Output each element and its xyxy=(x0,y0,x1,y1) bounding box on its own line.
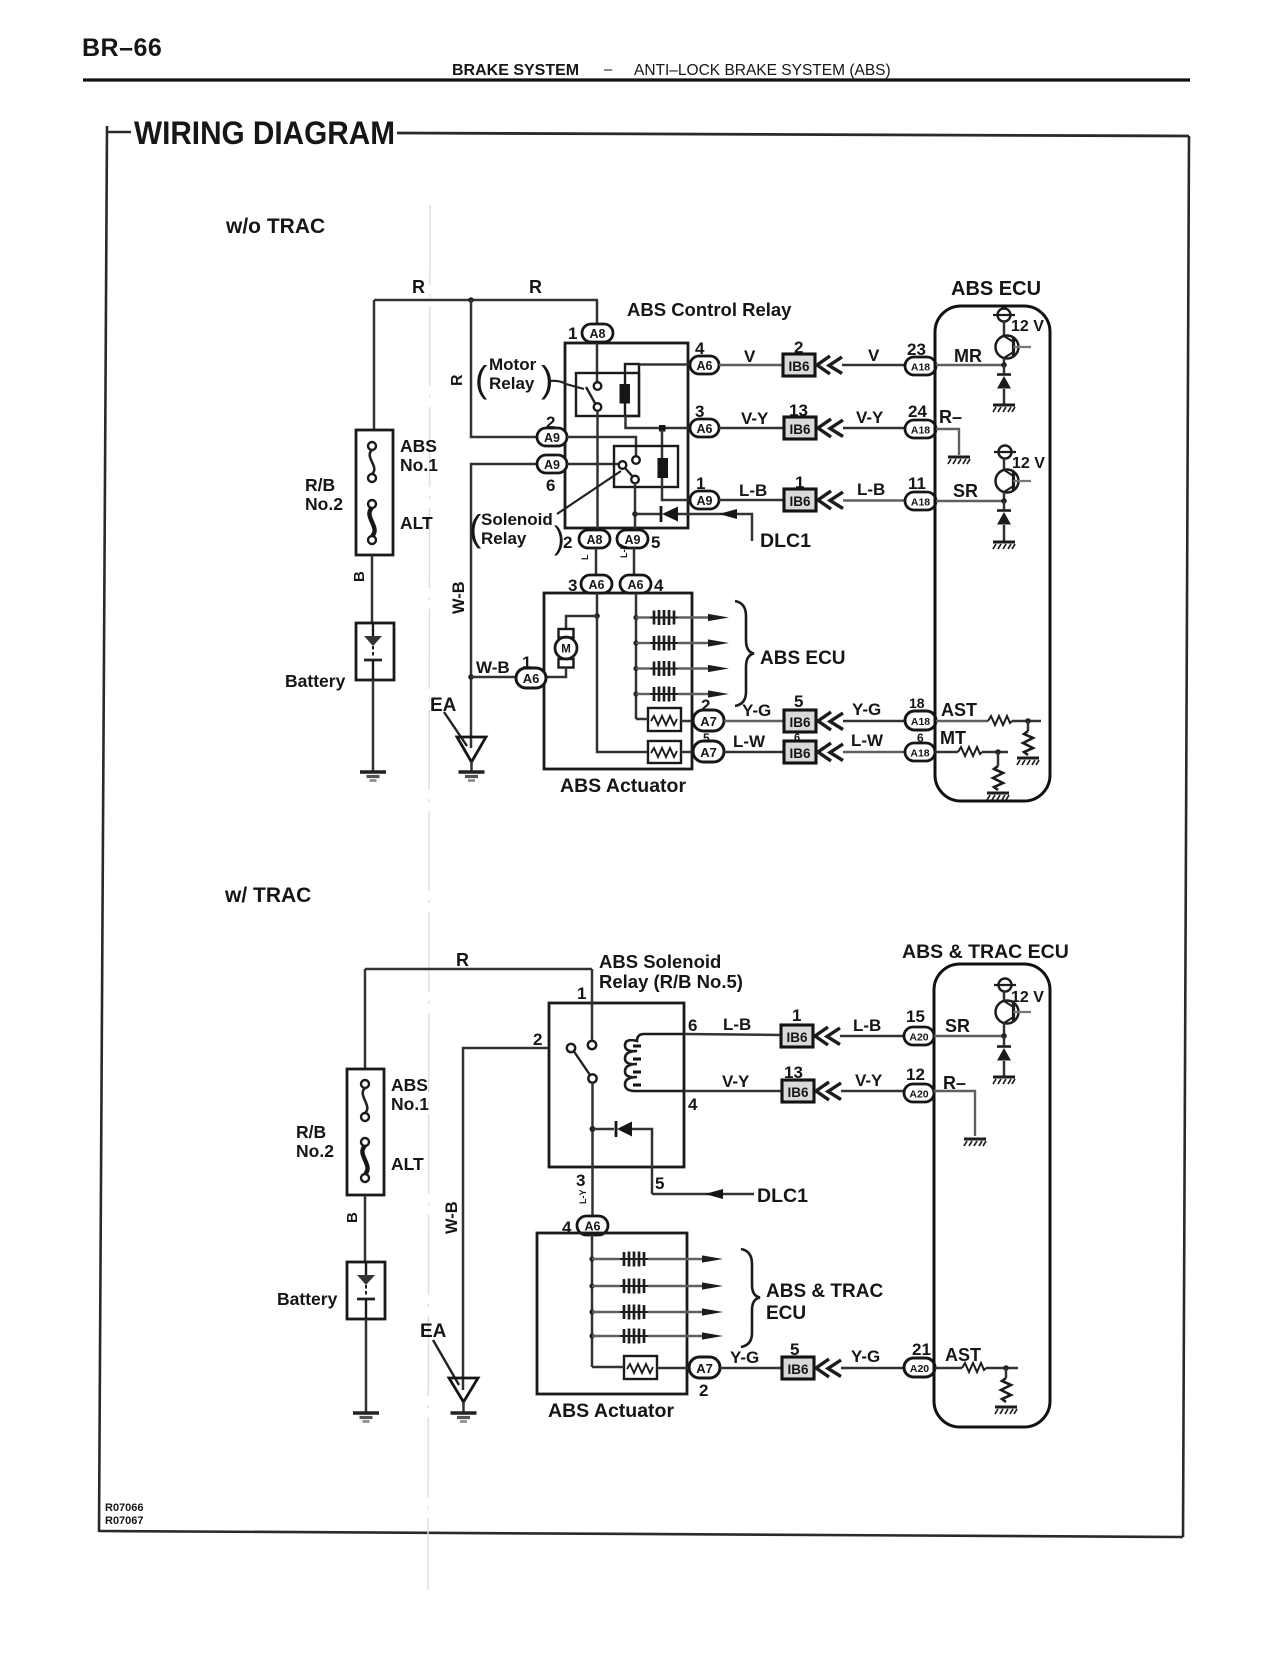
wire R/B No.2 to battery (lower) xyxy=(364,1195,367,1262)
svg-text:IB6: IB6 xyxy=(789,422,811,437)
wire Y-G to IB6 (lower) xyxy=(720,1367,782,1370)
svg-text:ABS Solenoid: ABS Solenoid xyxy=(599,951,721,972)
actuator solenoid coil 3 xyxy=(633,666,638,671)
svg-text:A6: A6 xyxy=(697,359,713,373)
svg-text:1: 1 xyxy=(568,324,577,343)
svg-text:R: R xyxy=(449,374,466,386)
wire to diode xyxy=(635,513,660,516)
svg-text:Y-G: Y-G xyxy=(730,1348,759,1367)
wire 12V to transistor (lower) xyxy=(1003,991,1006,1002)
svg-text:12: 12 xyxy=(906,1065,925,1084)
chevron arrows V row xyxy=(817,356,842,374)
svg-text:): ) xyxy=(541,359,553,400)
wire SR row xyxy=(936,500,1004,502)
connector A7 oval (lower) xyxy=(689,1357,720,1378)
connector A9 pin5 oval xyxy=(617,530,648,548)
junction on R wire xyxy=(468,297,474,303)
svg-text:Relay (R/B No.5): Relay (R/B No.5) xyxy=(599,971,743,992)
svg-text:ABS ECU: ABS ECU xyxy=(760,648,846,669)
svg-text:4: 4 xyxy=(654,576,664,595)
wire to diode (lower) xyxy=(593,1128,615,1131)
wire resistor to A7 (lower) xyxy=(657,1367,690,1370)
svg-text:A18: A18 xyxy=(911,497,930,509)
svg-text:L-B: L-B xyxy=(723,1015,751,1034)
junction V-Y row to solenoid coil xyxy=(659,425,666,432)
svg-text:ECU: ECU xyxy=(766,1303,806,1324)
svg-text:ABS ECU: ABS ECU xyxy=(951,278,1041,300)
wire transistor to SR row (lower) xyxy=(1003,1023,1006,1036)
svg-text:1: 1 xyxy=(792,1006,801,1025)
svg-text:R/B: R/B xyxy=(296,1122,326,1142)
relay/block box R/B No.2 xyxy=(356,430,393,555)
svg-text:No.2: No.2 xyxy=(296,1141,334,1161)
wire L-W to ECU pin 6 xyxy=(843,751,906,753)
switch blade xyxy=(574,1052,590,1076)
svg-text:3: 3 xyxy=(576,1171,585,1190)
svg-text:A9: A9 xyxy=(544,458,560,472)
resistor AST vertical to ground xyxy=(1027,721,1030,731)
switch left contact xyxy=(567,1044,575,1052)
svg-text:2: 2 xyxy=(563,533,572,552)
svg-text:18: 18 xyxy=(909,695,925,711)
diode (lower) xyxy=(616,1121,632,1137)
solenoid coil bus (lower) xyxy=(591,1235,594,1367)
wire W-B branch to A6 pin1 xyxy=(471,676,517,679)
relay/block box R/B No.2 (lower) xyxy=(347,1069,384,1195)
svg-text:IB6: IB6 xyxy=(787,1085,809,1100)
ground MR xyxy=(993,405,1015,412)
svg-text:A18: A18 xyxy=(911,425,930,437)
chevron arrows V-Y (lower) xyxy=(816,1082,841,1100)
resistor AST xyxy=(988,716,1012,725)
svg-text:W-B: W-B xyxy=(443,1201,461,1234)
earth ground EA triangle (lower) xyxy=(449,1378,478,1402)
wire junction down to L-W row xyxy=(597,616,648,752)
svg-text:SR: SR xyxy=(953,481,978,501)
svg-text:IB6: IB6 xyxy=(787,1362,809,1377)
wire junction to motor top xyxy=(566,616,597,630)
svg-text:R07067: R07067 xyxy=(105,1515,144,1527)
svg-text:V-Y: V-Y xyxy=(855,1071,883,1090)
svg-text:M: M xyxy=(561,644,571,656)
svg-text:A8: A8 xyxy=(587,533,603,547)
pointer from label to solenoid blade xyxy=(557,471,621,514)
svg-text:A20: A20 xyxy=(909,1032,928,1044)
junction motor feed xyxy=(594,613,600,619)
svg-text:MR: MR xyxy=(954,346,982,366)
svg-text:11: 11 xyxy=(908,474,926,493)
solenoid relay blade xyxy=(625,468,633,477)
wire V-Y to ECU pin 24 xyxy=(843,427,906,430)
wire R top horizontal (lower) xyxy=(365,968,592,971)
junction MR xyxy=(1001,362,1007,368)
wire A9 pin6 to solenoid relay contact xyxy=(567,463,619,466)
junction connector IB6 (V row) xyxy=(783,354,815,376)
svg-text:Battery: Battery xyxy=(285,671,346,691)
connector A18 oval (pin 23) xyxy=(905,357,936,375)
brace to ABS ECU xyxy=(735,601,754,706)
wire resistor 1 to A7 xyxy=(681,720,694,723)
svg-text:ANTI–LOCK BRAKE SYSTEM (ABS): ANTI–LOCK BRAKE SYSTEM (ABS) xyxy=(634,62,891,79)
svg-text:Solenoid: Solenoid xyxy=(481,510,553,529)
ground R- (lower) xyxy=(964,1139,986,1146)
brace to ABS & TRAC ECU xyxy=(741,1249,760,1347)
resistor box 1 (Y-G row) xyxy=(648,708,681,731)
wire Y-G to IB6 xyxy=(724,720,784,722)
svg-text:w/o TRAC: w/o TRAC xyxy=(225,215,325,238)
svg-text:IB6: IB6 xyxy=(786,1030,808,1045)
svg-text:AST: AST xyxy=(941,700,977,720)
actuator solenoid coil 1 (lower) xyxy=(589,1256,594,1261)
junction connector IB6 (L-W row) xyxy=(784,741,816,763)
svg-text:A20: A20 xyxy=(910,1363,929,1375)
motor M xyxy=(555,629,577,668)
svg-text:A7: A7 xyxy=(700,714,717,729)
svg-text:BRAKE SYSTEM: BRAKE SYSTEM xyxy=(452,62,579,79)
ABS Actuator box (lower) xyxy=(537,1233,687,1394)
connector A9 pin6 oval xyxy=(537,455,567,473)
junction connector IB6 (lower L-B) xyxy=(781,1025,813,1047)
ground AST (lower) xyxy=(995,1407,1017,1414)
coil tick marks xyxy=(633,1045,641,1048)
wire SR row (lower) xyxy=(934,1035,1004,1037)
battery symbol xyxy=(364,623,382,680)
ABS Solenoid Relay box xyxy=(549,1003,684,1167)
svg-text:R/B: R/B xyxy=(305,475,335,495)
connector A7 oval (L-W) xyxy=(693,741,724,762)
ground bars EA xyxy=(459,772,485,781)
svg-text:A6: A6 xyxy=(697,422,713,436)
connector A18 oval (pin 11) xyxy=(905,492,936,510)
connector A6 pin4 oval xyxy=(690,356,719,374)
chevron arrows L-B row xyxy=(818,491,843,509)
junction diode tap xyxy=(632,511,638,517)
fuse ABS No.1 (lower) xyxy=(361,1080,369,1121)
connector A20 oval (pin 15) xyxy=(904,1027,934,1045)
12V terminal 2 xyxy=(994,446,1016,459)
fuse ABS No.1 xyxy=(368,442,376,482)
svg-text:R: R xyxy=(529,277,542,297)
wire bus to resistor 1 xyxy=(636,718,648,721)
svg-text:BR–66: BR–66 xyxy=(82,34,162,62)
outer frame top border xyxy=(397,133,1189,136)
svg-text:A20: A20 xyxy=(909,1089,928,1101)
motor relay fixed contact xyxy=(594,382,602,390)
motor relay moving contact xyxy=(594,403,602,411)
wire R branch down to relay coil pin 2 xyxy=(471,300,537,437)
svg-text:A7: A7 xyxy=(696,1361,713,1376)
outer frame left border xyxy=(99,126,107,1532)
connector A8 pin1 oval xyxy=(582,324,613,342)
svg-text:ABS Control Relay: ABS Control Relay xyxy=(627,299,792,320)
wire pin1 into switch xyxy=(591,969,594,1041)
pointer from label to motor relay blade xyxy=(549,381,584,389)
arrowhead on DLC1 wire xyxy=(719,509,737,519)
connector A20 oval (pin 21) xyxy=(904,1358,935,1377)
wire V-Y to IB6 (lower) xyxy=(684,1090,783,1093)
junction SR xyxy=(1001,498,1007,504)
DLC1 wire with arrowhead (lower) xyxy=(652,1193,754,1196)
svg-text:24: 24 xyxy=(908,402,927,421)
svg-text:A6: A6 xyxy=(585,1220,601,1234)
solenoid relay box xyxy=(614,446,678,487)
battery box xyxy=(356,623,394,680)
wire AST row inside ECU (lower) xyxy=(935,1367,962,1370)
wire 12V to transistor SR xyxy=(1003,458,1006,471)
svg-text:A6: A6 xyxy=(523,671,540,686)
ground under battery (lower) xyxy=(353,1413,379,1422)
wire MR row xyxy=(936,364,1004,366)
resistor MT xyxy=(958,747,982,756)
svg-text:Motor: Motor xyxy=(489,355,537,374)
transistor MR xyxy=(996,336,1032,359)
chevron arrows L-W row xyxy=(818,743,843,761)
svg-text:B: B xyxy=(344,1212,361,1223)
EA pointer line xyxy=(444,712,467,746)
wire L-B to IB6 xyxy=(719,499,784,502)
wire L-B to IB6 (lower) xyxy=(684,1034,782,1035)
junction AST xyxy=(1025,718,1031,724)
wire W-B from relay pin2 down to EA (lower) xyxy=(463,1048,548,1390)
ABS ECU box xyxy=(935,306,1050,801)
battery box (lower) xyxy=(347,1262,385,1319)
connector A18 oval (pin 18) xyxy=(905,711,936,730)
battery symbol (lower) xyxy=(357,1262,375,1319)
connector A6 pin3 oval xyxy=(690,419,719,437)
svg-text:ALT: ALT xyxy=(391,1154,424,1174)
svg-text:ALT: ALT xyxy=(400,513,433,533)
svg-text:ABS & TRAC: ABS & TRAC xyxy=(766,1281,883,1302)
svg-text:w/ TRAC: w/ TRAC xyxy=(224,884,311,907)
connector A6 pin1 oval xyxy=(516,668,546,688)
wire V-Y to IB6 xyxy=(719,427,784,430)
svg-text:A8: A8 xyxy=(590,327,606,341)
svg-text:12 V: 12 V xyxy=(1012,455,1045,472)
svg-text:A6: A6 xyxy=(589,578,605,592)
solenoid relay moving contact xyxy=(631,476,639,484)
svg-text:4: 4 xyxy=(688,1095,698,1114)
resistor MT vertical to ground xyxy=(997,752,1000,766)
motor relay coil (solid) xyxy=(620,384,631,404)
ABS & TRAC ECU box xyxy=(934,964,1050,1427)
connector A7 oval (Y-G) xyxy=(693,710,724,731)
wire down to R/B No.2 xyxy=(373,300,376,430)
resistor AST vertical to ground (lower) xyxy=(1005,1368,1008,1378)
chevron arrows Y-G (lower) xyxy=(816,1359,841,1377)
svg-text:L-W: L-W xyxy=(851,731,884,750)
svg-text:A6: A6 xyxy=(628,578,644,592)
svg-text:(: ( xyxy=(475,359,488,400)
motor relay blade xyxy=(586,387,596,404)
junction connector IB6 (lower V-Y) xyxy=(782,1080,814,1102)
svg-text:No.2: No.2 xyxy=(305,494,343,514)
solenoid coil bus from A6 pin4 xyxy=(635,593,638,719)
svg-text:A18: A18 xyxy=(911,362,930,374)
svg-text:R–: R– xyxy=(939,407,962,427)
junction W-B to actuator motor xyxy=(468,674,474,680)
outer frame bottom border xyxy=(99,1531,1183,1537)
svg-text:ABS: ABS xyxy=(391,1075,428,1095)
ground R- xyxy=(948,457,970,464)
diode MR to ground xyxy=(1003,365,1006,374)
svg-text:R: R xyxy=(456,950,469,970)
svg-text:V-Y: V-Y xyxy=(741,409,769,428)
svg-text:AST: AST xyxy=(945,1345,981,1365)
svg-text:L-Y: L-Y xyxy=(619,544,629,559)
svg-text:SR: SR xyxy=(945,1016,970,1036)
ground under battery xyxy=(360,772,386,781)
connector A9 pin1 oval xyxy=(690,491,719,509)
solenoid relay upper contact xyxy=(632,456,640,464)
wire V to junction IB6 xyxy=(719,364,784,366)
12V terminal (lower) xyxy=(994,979,1016,992)
connector A18 oval (pin 24) xyxy=(905,420,936,438)
svg-text:ABS Actuator: ABS Actuator xyxy=(548,1400,674,1422)
svg-text:Y-G: Y-G xyxy=(852,700,881,719)
wire R top horizontal xyxy=(374,299,598,302)
svg-text:A18: A18 xyxy=(910,748,929,760)
svg-text:1: 1 xyxy=(577,984,586,1003)
wire Y-G to ECU pin 21 (lower) xyxy=(841,1367,905,1370)
wire AST row inside ECU xyxy=(936,720,988,722)
svg-text:IB6: IB6 xyxy=(788,359,810,374)
wire solenoid coil to A9 pin1 (L-B row) xyxy=(662,478,690,500)
svg-text:V-Y: V-Y xyxy=(722,1072,750,1091)
svg-text:No.1: No.1 xyxy=(391,1094,429,1114)
wire solenoid switch to A9 pin5 xyxy=(634,483,637,530)
svg-text:No.1: No.1 xyxy=(400,455,438,475)
ABS Actuator box xyxy=(544,593,692,769)
actuator solenoid coil 2 xyxy=(633,640,638,645)
svg-text:Relay: Relay xyxy=(481,529,527,548)
svg-text:3: 3 xyxy=(568,576,577,595)
outer frame top stub left of title xyxy=(106,131,131,134)
svg-text:R07066: R07066 xyxy=(105,1502,144,1514)
wire A9 pin2 to solenoid relay fixed contact xyxy=(567,437,636,456)
junction connector IB6 (Y-G row) xyxy=(784,710,816,732)
wire motor bottom to A6 pin1 xyxy=(546,668,566,678)
svg-text:5: 5 xyxy=(655,1174,664,1193)
connector A20 oval (pin 12) xyxy=(904,1084,934,1102)
fusible link ALT (lower) xyxy=(361,1138,369,1182)
svg-text:Y-G: Y-G xyxy=(851,1347,880,1366)
svg-text:6: 6 xyxy=(546,476,555,495)
switch fixed contact (lower relay) xyxy=(588,1041,596,1049)
header horizontal rule xyxy=(83,78,1190,81)
svg-text:L: L xyxy=(580,554,590,560)
svg-text:15: 15 xyxy=(906,1007,925,1026)
connector A6 pin4 oval (actuator) xyxy=(620,575,651,593)
wire resistor 2 to A7 xyxy=(681,751,694,754)
svg-text:IB6: IB6 xyxy=(789,746,811,761)
wire L-B to ECU pin 11 xyxy=(843,499,906,501)
junction connector IB6 (L-B row) xyxy=(784,489,816,511)
svg-text:5: 5 xyxy=(794,692,803,711)
svg-text:–: – xyxy=(604,61,613,78)
svg-text:ABS & TRAC ECU: ABS & TRAC ECU xyxy=(902,941,1069,963)
wire bus to resistor (lower) xyxy=(592,1366,624,1369)
chevron arrows V-Y row xyxy=(818,419,843,437)
svg-text:Y-G: Y-G xyxy=(742,701,771,720)
faint scanner streak vertical line xyxy=(428,205,430,1590)
solenoid relay coil (solid) xyxy=(658,458,669,478)
svg-text:Battery: Battery xyxy=(277,1289,338,1309)
solenoid relay left contact xyxy=(619,461,627,469)
junction diode tap (lower) xyxy=(590,1126,596,1132)
pin 24 wire R- to ground xyxy=(936,429,959,455)
wire 12V to transistor xyxy=(1003,321,1006,337)
wire A6 pin3 to motor junction xyxy=(596,593,599,616)
svg-text:L-W: L-W xyxy=(733,732,766,751)
wire coil to A6 pin4 (V row) xyxy=(639,363,690,366)
wire transistor to SR row xyxy=(1003,492,1006,501)
svg-text:L-Y: L-Y xyxy=(578,1190,588,1205)
svg-text:W-B: W-B xyxy=(476,658,510,677)
svg-text:MT: MT xyxy=(940,728,966,748)
svg-text:DLC1: DLC1 xyxy=(757,1185,808,1207)
wire motor relay switch to A8 pin2 xyxy=(596,411,599,530)
svg-text:2: 2 xyxy=(533,1030,542,1049)
wire V to ECU pin 23 xyxy=(842,364,906,367)
EA pointer line (lower) xyxy=(433,1340,459,1385)
diode SR to ground (lower) xyxy=(1003,1036,1006,1046)
diode SR to ground xyxy=(1003,501,1006,510)
12V terminal 1 xyxy=(993,309,1015,322)
chevron arrows L-B (lower) xyxy=(815,1027,840,1045)
wire transistor to MR row xyxy=(1003,358,1006,365)
junction MT xyxy=(995,749,1001,755)
svg-text:IB6: IB6 xyxy=(789,715,811,730)
svg-text:A9: A9 xyxy=(544,431,560,445)
motor relay box xyxy=(576,373,639,416)
svg-text:W-B: W-B xyxy=(450,581,468,614)
wire W-B: relay coil pin6 return down to EA xyxy=(471,464,537,748)
wire L-W to IB6 xyxy=(724,751,784,754)
actuator solenoid coil 1 xyxy=(633,615,638,620)
outer frame right border xyxy=(1183,136,1189,1537)
wire solenoid coil drop xyxy=(661,430,664,458)
chevron arrows Y-G row xyxy=(818,712,843,730)
svg-text:V-Y: V-Y xyxy=(856,408,884,427)
wire A8 pin2 to A6 pin3 xyxy=(595,548,598,576)
junction connector IB6 (lower Y-G) xyxy=(782,1357,814,1379)
svg-text:WIRING DIAGRAM: WIRING DIAGRAM xyxy=(134,115,395,151)
wire battery to ground (lower) xyxy=(365,1319,368,1413)
ground MT xyxy=(987,793,1009,800)
svg-text:21: 21 xyxy=(912,1340,931,1359)
resistor box (lower) xyxy=(624,1356,657,1379)
switch moving contact xyxy=(588,1074,596,1082)
connector A18 oval (pin 6) xyxy=(905,743,935,761)
wire V-Y to ECU pin 12 xyxy=(841,1090,904,1093)
wire R- to ground (lower) xyxy=(934,1091,975,1136)
actuator solenoid coil 2 (lower) xyxy=(589,1283,594,1288)
wire pin1 into motor relay contact xyxy=(596,300,599,382)
actuator solenoid coil 4 xyxy=(633,691,638,696)
wire R/B No.2 to battery xyxy=(371,555,374,623)
ground AST xyxy=(1017,758,1039,765)
svg-text:Relay: Relay xyxy=(489,374,535,393)
resistor AST (lower) xyxy=(962,1363,986,1372)
ground SR (lower) xyxy=(993,1077,1015,1084)
wire down to R/B No.2 xyxy=(364,969,367,1069)
resistor box 2 (L-W row) xyxy=(648,741,681,763)
svg-text:R: R xyxy=(412,277,425,297)
svg-text:A9: A9 xyxy=(697,494,713,508)
svg-text:V: V xyxy=(868,346,880,365)
svg-text:L-B: L-B xyxy=(853,1016,881,1035)
connector A6 pin3 oval (actuator) xyxy=(581,575,612,593)
